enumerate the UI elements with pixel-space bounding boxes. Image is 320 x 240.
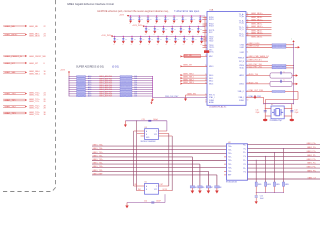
svg-text:10K: 10K [191,29,193,31]
svg-text:GBE1_TX1-: GBE1_TX1- [93,155,104,157]
svg-text:XTAL_O: XTAL_O [238,90,245,93]
svg-text:GBE1_MDI1+: GBE1_MDI1+ [251,19,264,21]
svg-text:U5: U5 [145,182,147,184]
svg-text:GBE1_WT: GBE1_WT [183,65,193,67]
svg-text:GBE1_P1+: GBE1_P1+ [306,151,316,153]
svg-text:28: 28 [44,108,46,110]
svg-text:GBE1_WT: GBE1_WT [5,63,16,65]
svg-text:+3V3_PHY: +3V3_PHY [132,25,143,27]
svg-text:10K: 10K [125,39,127,41]
svg-text:REF: REF [228,175,231,177]
svg-text:10nF: 10nF [260,198,264,200]
svg-text:10K: 10K [176,18,178,20]
svg-text:10K: 10K [151,39,153,41]
svg-text:GBE1_MDIO: GBE1_MDIO [29,36,41,38]
svg-text:10K: 10K [165,29,167,31]
svg-text:GBE1_MD: GBE1_MD [29,26,39,28]
svg-text:26: 26 [44,101,46,103]
svg-text:GBE1_SEL2: GBE1_SEL2 [183,79,194,81]
svg-text:10K: 10K [177,39,179,41]
svg-text:10K: 10K [141,18,143,20]
svg-text:IN2: IN2 [138,189,141,191]
svg-text:TX_A-: TX_A- [239,15,244,18]
svg-text:GBE1_P2+: GBE1_P2+ [306,159,316,161]
svg-text:10K: 10K [132,18,134,20]
svg-text:QCA8337N-AL3C: QCA8337N-AL3C [209,106,227,109]
svg-text:7-other Error rate spec.: 7-other Error rate spec. [174,10,200,13]
svg-text:TD3+: TD3+ [228,167,232,169]
svg-text:GBE1 Gigabit Ethernet Interfac: GBE1 Gigabit Ethernet Interface Circuit [67,2,114,6]
svg-text:P0+: P0+ [243,144,246,146]
svg-text:22pF: 22pF [256,112,260,114]
svg-text:GBE1_P3+: GBE1_P3+ [306,167,316,169]
svg-text:XTAL_I: XTAL_I [209,96,215,99]
svg-text:10K: 10K [148,29,150,31]
svg-text:+1V0_PHY: +1V0_PHY [101,35,112,37]
svg-text:100nF: 100nF [153,119,158,121]
svg-text:XTAL_I: XTAL_I [238,96,244,99]
svg-text:TX_C-: TX_C- [239,29,244,31]
svg-text:10K: 10K [142,39,144,41]
svg-text:49R9: 49R9 [285,184,289,186]
svg-text:P1+: P1+ [243,152,246,154]
svg-text:AD9: AD9 [88,95,91,98]
svg-text:GBE1_SEL0: GBE1_SEL0 [183,74,194,76]
svg-text:B5: B5 [203,187,205,189]
svg-text:MDIO: MDIO [209,66,214,68]
svg-text:TD0+: TD0+ [228,146,232,148]
svg-text:SEL0: SEL0 [209,75,213,77]
svg-text:10K: 10K [200,29,202,31]
svg-text:GBE1_MDI2+: GBE1_MDI2+ [251,26,264,28]
svg-text:GBE1_TX2-: GBE1_TX2- [29,108,40,110]
svg-text:TD3-: TD3- [228,171,232,173]
svg-text:GBE1_AD9 R49: GBE1_AD9 R49 [99,95,112,98]
svg-text:U3: U3 [145,127,147,129]
svg-text:22: 22 [44,26,46,28]
svg-text:B7: B7 [211,187,213,189]
svg-text:GBE1_MDI3+: GBE1_MDI3+ [251,32,264,34]
svg-text:miniPCIE ethernet port, connec: miniPCIE ethernet port, connect the seve… [97,10,170,13]
svg-text:P3+: P3+ [243,168,246,170]
svg-text:RTL8211E-VB: RTL8211E-VB [226,182,238,184]
svg-text:GBE1_P0-: GBE1_P0- [307,147,316,149]
svg-text:SEL1: SEL1 [209,78,213,80]
svg-text:16: 16 [44,73,46,75]
svg-text:B: B [146,134,147,136]
svg-text:Y: Y [156,131,157,133]
svg-text:GBE1_SEL1: GBE1_SEL1 [183,77,194,79]
svg-text:TXD2: TXD2 [209,41,213,43]
svg-text:GBE1_MDI3-: GBE1_MDI3- [251,37,263,39]
svg-text:18: 18 [44,56,46,58]
svg-text:10K: 10K [169,39,171,41]
svg-text:GBE1_P0+: GBE1_P0+ [306,143,316,145]
svg-text:XTAL_OUT_25M: XTAL_OUT_25M [249,89,264,92]
svg-text:GBE1_MDIO: GBE1_MDIO [5,34,18,36]
svg-text:VDDL: VDDL [239,68,244,70]
svg-text:AGND: AGND [209,101,215,104]
svg-text:49R9: 49R9 [258,184,262,186]
svg-text:GBE1_TX3-: GBE1_TX3- [93,170,104,172]
svg-text:B8: B8 [220,187,222,189]
svg-text:25.000MHz 12pF: 25.000MHz 12pF [270,120,282,122]
svg-text:SEL3: SEL3 [209,83,213,85]
svg-text:10K: 10K [183,29,185,31]
svg-text:GBE1_SEL3: GBE1_SEL3 [183,82,194,84]
svg-text:INT_N: INT_N [239,61,245,63]
svg-text:X1: X1 [271,104,273,106]
svg-text:10K: 10K [186,39,188,41]
svg-text:RXD3: RXD3 [209,26,214,28]
svg-text:25M_CLK_PHY: 25M_CLK_PHY [165,96,179,98]
svg-text:GBE1_TX2: GBE1_TX2 [5,106,17,108]
svg-text:C14: C14 [144,201,147,203]
svg-text:GBE1_TX2+: GBE1_TX2+ [93,159,105,161]
svg-text:B3: B3 [195,187,197,189]
svg-text:P2+: P2+ [243,160,246,162]
svg-text:GBE1_TX3+: GBE1_TX3+ [93,166,105,168]
svg-text:VCC3: VCC3 [163,189,168,191]
svg-text:VDD_PHY_2V5: VDD_PHY_2V5 [249,66,262,68]
svg-text:GBE1_REF: GBE1_REF [93,173,104,175]
svg-text:OUT: OUT [160,184,164,186]
svg-text:TX_D-: TX_D- [239,36,244,38]
svg-text:GBE1_SEL1: GBE1_SEL1 [29,73,40,75]
svg-text:GBE1_EN: GBE1_EN [187,93,196,95]
svg-text:LED1: LED1 [240,47,244,49]
svg-text:AVDD_2V5: AVDD_2V5 [249,81,259,84]
svg-text:10K: 10K [167,18,169,20]
svg-text:GBE1_P3-: GBE1_P3- [307,171,316,173]
svg-text:TD1-: TD1- [228,157,232,159]
svg-text:GBE1_P1-: GBE1_P1- [307,155,316,157]
svg-text:GBE1_TX2-: GBE1_TX2- [93,163,104,165]
svg-text:10K: 10K [150,18,152,20]
svg-text:GBE1_TX3-: GBE1_TX3- [29,114,40,116]
svg-text:GBE1_TX1-: GBE1_TX1- [29,101,40,103]
svg-text:GBE1_TX1+: GBE1_TX1+ [93,152,105,154]
svg-text:LED2: LED2 [240,52,244,54]
svg-text:Y: Y [156,186,157,188]
svg-text:22pF: 22pF [295,112,299,114]
svg-text:(0 0/0): (0 0/0) [112,65,119,68]
svg-text:30: 30 [44,114,46,116]
svg-text:10K: 10K [193,18,195,20]
svg-text:GBE1_TX1: GBE1_TX1 [5,100,17,102]
svg-text:U1A: U1A [209,9,214,12]
svg-text:10K: 10K [134,39,136,41]
svg-text:TD0-: TD0- [228,149,232,151]
svg-text:GBE1_TX0+: GBE1_TX0+ [93,145,105,147]
svg-text:GBE1_SEL: GBE1_SEL [5,72,17,74]
svg-text:C13: C13 [142,119,145,121]
svg-text:GBE1_P2-: GBE1_P2- [307,163,316,165]
svg-text:GBE1_WT: GBE1_WT [29,63,39,65]
svg-text:RXD1: RXD1 [209,19,214,21]
svg-text:49R9: 49R9 [267,184,271,186]
svg-text:GBE1_MD: GBE1_MD [183,55,193,57]
svg-text:8: 8 [44,63,45,65]
svg-text:10K: 10K [185,18,187,20]
svg-text:23: 23 [44,36,46,38]
svg-text:GBE1_MDI0+: GBE1_MDI0+ [251,13,264,15]
svg-text:GBE1_PERST_N: GBE1_PERST_N [5,56,23,58]
svg-text:SEL2: SEL2 [209,81,213,83]
svg-text:100nF: 100nF [156,201,161,203]
svg-text:10K: 10K [116,39,118,41]
svg-text:GBE1_TX0: GBE1_TX0 [5,93,17,95]
svg-text:TX_B-: TX_B- [239,22,244,24]
svg-text:SN74LVC1G08DBV: SN74LVC1G08DBV [141,141,157,143]
svg-text:SGND: SGND [239,100,245,102]
svg-text:24: 24 [44,95,46,97]
svg-text:AVDD_1V0: AVDD_1V0 [249,73,259,76]
svg-text:SUPER ADDRESS (0 0/0): SUPER ADDRESS (0 0/0) [76,65,104,68]
svg-text:49R9: 49R9 [276,184,280,186]
svg-text:GBE1_MD: GBE1_MD [5,26,16,28]
svg-text:GBE1_PERST_N: GBE1_PERST_N [29,56,44,58]
svg-text:10K: 10K [158,18,160,20]
svg-text:DVDD: DVDD [239,84,245,86]
svg-text:10K: 10K [174,29,176,31]
svg-text:TD2-: TD2- [228,164,232,166]
svg-text:TD2+: TD2+ [228,160,232,162]
svg-text:R10: R10 [200,44,203,46]
svg-text:GBE1_TX0-: GBE1_TX0- [29,95,40,97]
svg-text:10K: 10K [195,39,197,41]
svg-text:GBE1_TX0-: GBE1_TX0- [93,148,104,150]
svg-text:60: 60 [247,99,249,101]
svg-text:AVDD: AVDD [239,74,244,77]
svg-text:B: B [146,189,147,191]
svg-text:51: 51 [247,51,249,53]
svg-text:GBE1_TX3: GBE1_TX3 [5,113,17,115]
svg-text:GTXC: GTXC [209,52,214,54]
svg-text:10K: 10K [157,29,159,31]
svg-text:GBE1_LED1: GBE1_LED1 [249,46,260,48]
svg-text:GBE1_CT: GBE1_CT [307,178,316,180]
svg-text:10K: 10K [160,39,162,41]
svg-text:TD1+: TD1+ [228,153,232,155]
svg-text:IN1: IN1 [135,184,138,186]
svg-text:PME_N: PME_N [238,58,245,60]
